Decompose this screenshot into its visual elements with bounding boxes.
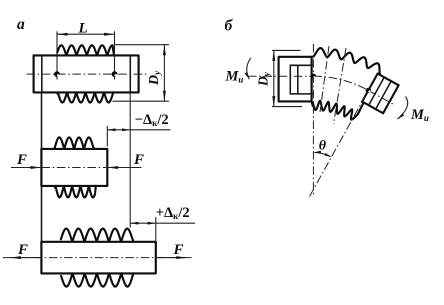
svg-text:Mи: Mи [225, 69, 244, 85]
angle theta arc [314, 138, 332, 157]
bellows coupling body (stretched, bottom) [41, 242, 155, 274]
dimension +dk/2 [130, 205, 195, 242]
svg-text:L: L [78, 21, 88, 37]
svg-text:+Δк/2: +Δк/2 [156, 205, 190, 221]
bottom corrugations [57, 92, 113, 102]
centerline [3, 257, 192, 259]
left fitting flange line [297, 65, 299, 94]
fan top corrugations [313, 48, 380, 74]
curved axis centerline [313, 76, 368, 90]
force F left (tension) [10, 242, 41, 259]
dimension L [57, 21, 115, 37]
bellows radial line 1 [320, 46, 329, 112]
bellows coupling body (relaxed, top) [34, 55, 139, 92]
right hole axis [114, 31, 116, 79]
centerline [11, 167, 142, 169]
dimension Dy (fig b) [256, 50, 303, 106]
dimension Dy (top fig) [113, 45, 169, 101]
left fitting outer [279, 57, 312, 102]
bottom corrugations (compressed) [55, 186, 96, 198]
right fitting inner line 2 [376, 81, 392, 109]
dimension -dk/2 [107, 112, 170, 147]
svg-text:Dу: Dу [256, 71, 272, 87]
left hole axis [56, 31, 58, 79]
right fitting inner line 1 [369, 77, 385, 105]
force F left (compression) [13, 152, 41, 169]
axis extension through right fitting [368, 90, 394, 105]
right bolt hole [112, 71, 118, 77]
svg-text:Mи: Mи [410, 107, 429, 123]
reference extension line (relaxed length) [129, 92, 131, 227]
moment Mi left [225, 58, 251, 84]
right fitting outer [362, 74, 399, 114]
left bolt hole [54, 71, 60, 77]
svg-text:−Δк/2: −Δк/2 [135, 112, 169, 128]
svg-text:F: F [133, 152, 144, 168]
right flange inner line [129, 55, 131, 92]
vertical axis through left hole [312, 44, 314, 196]
svg-text:б: б [225, 18, 234, 35]
bellows coupling body (compressed, middle) [41, 149, 107, 186]
svg-text:F: F [16, 152, 27, 168]
moment Mi right [398, 97, 429, 124]
left flange inner line [41, 55, 43, 92]
svg-text:F: F [17, 242, 28, 258]
left fitting bore [290, 65, 313, 94]
svg-text:F: F [173, 242, 184, 258]
top corrugations (compressed) [55, 137, 95, 149]
inclined axis through right hole [310, 85, 372, 197]
force F right (compression) [108, 152, 145, 169]
connector line left (top fig to bottom fig) [41, 92, 43, 148]
left bolt hole (fig b) [311, 74, 316, 79]
top corrugations [57, 45, 114, 55]
bottom corrugations (stretched) [61, 273, 133, 286]
bellows radial line 2 [334, 48, 347, 124]
centerline [27, 73, 149, 75]
fan bellows end connectors [312, 57, 314, 106]
fan bottom corrugations [313, 101, 363, 120]
horizontal centerline left [248, 75, 313, 77]
right bolt hole (fig b) [366, 88, 371, 93]
svg-text:θ: θ [319, 138, 327, 153]
force F right (tension) [156, 242, 187, 259]
svg-text:а: а [17, 16, 25, 33]
top corrugations (stretched) [61, 229, 134, 242]
svg-text:Dу: Dу [147, 70, 162, 86]
